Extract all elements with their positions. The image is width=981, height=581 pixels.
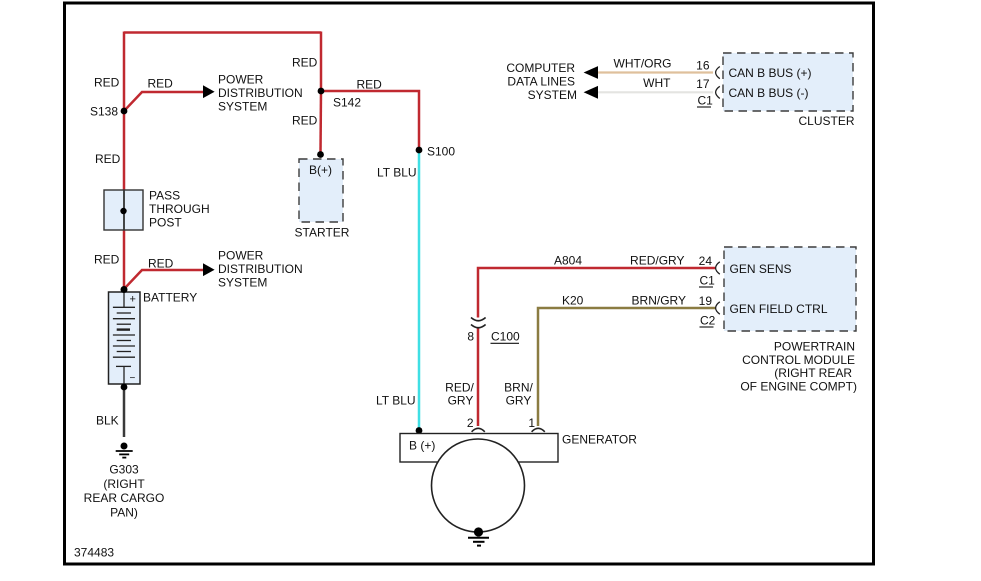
svg-text:C1: C1	[698, 94, 714, 108]
svg-text:RED: RED	[94, 253, 120, 267]
battery internals	[113, 292, 135, 384]
svg-text:RED: RED	[95, 152, 121, 166]
svg-text:DISTRIBUTION: DISTRIBUTION	[218, 262, 303, 276]
svg-text:RED: RED	[94, 76, 120, 90]
wire: WHT cluster to computer data lines	[598, 91, 713, 93]
wire: RED/GRY A804 from PCM left then down to C100	[478, 268, 716, 318]
svg-text:GRY: GRY	[448, 394, 474, 408]
svg-text:RED/GRY: RED/GRY	[630, 254, 684, 268]
svg-text:S142: S142	[333, 96, 361, 110]
svg-text:19: 19	[699, 294, 713, 308]
svg-text:CAN B BUS (-): CAN B BUS (-)	[729, 86, 809, 100]
svg-text:DISTRIBUTION: DISTRIBUTION	[218, 86, 303, 100]
svg-text:BLK: BLK	[96, 414, 119, 428]
wire: black conductor inside pass-through post	[123, 190, 125, 230]
svg-text:REAR CARGO: REAR CARGO	[84, 491, 165, 505]
svg-text:B (+): B (+)	[409, 439, 435, 453]
svg-text:BRN/: BRN/	[504, 381, 533, 395]
svg-text:C1: C1	[700, 274, 716, 288]
wire: LT BLU S100 down to generator B(+)	[418, 150, 421, 430]
svg-text:GEN SENS: GEN SENS	[730, 262, 792, 276]
node: S100 junction dot	[416, 147, 423, 154]
svg-text:CAN B BUS (+): CAN B BUS (+)	[729, 66, 812, 80]
svg-text:POST: POST	[149, 216, 182, 230]
svg-text:RED: RED	[357, 78, 383, 92]
frame border	[65, 3, 874, 564]
wire: RED vertical top corner down to S142	[320, 32, 323, 92]
node: S142 junction dot	[318, 88, 325, 95]
svg-text:G303: G303	[109, 463, 139, 477]
connector: C100 inline connector	[471, 318, 486, 328]
svg-text:THROUGH: THROUGH	[149, 202, 210, 216]
wire: RED S142 right and down to S100	[321, 91, 419, 150]
svg-text:GENERATOR: GENERATOR	[562, 433, 637, 447]
box: generator	[400, 434, 558, 463]
svg-text:LT BLU: LT BLU	[376, 394, 416, 408]
svg-text:(RIGHT: (RIGHT	[103, 477, 145, 491]
wire: BLK battery to ground G303	[123, 387, 126, 437]
node: S138 junction dot	[121, 108, 128, 115]
svg-text:(RIGHT REAR: (RIGHT REAR	[774, 366, 852, 380]
connector: cluster pin 17	[716, 86, 720, 98]
svg-text:POWERTRAIN: POWERTRAIN	[774, 340, 855, 354]
svg-text:374483: 374483	[74, 546, 114, 560]
svg-text:RED: RED	[148, 257, 174, 271]
connector: PCM pin 24	[716, 262, 720, 274]
svg-text:K20: K20	[562, 294, 584, 308]
svg-text:16: 16	[696, 59, 710, 73]
svg-text:A804: A804	[554, 254, 582, 268]
node: LT BLU at generator dot	[416, 427, 423, 434]
svg-text:SYSTEM: SYSTEM	[218, 100, 267, 114]
svg-text:POWER: POWER	[218, 73, 264, 87]
svg-text:LT BLU: LT BLU	[377, 166, 417, 180]
svg-text:17: 17	[696, 77, 710, 91]
node: pass-through post terminal dot	[120, 208, 126, 214]
svg-text:RED/: RED/	[445, 381, 474, 395]
arrow: power distribution (top)	[203, 85, 215, 98]
node: battery negative terminal dot	[121, 384, 128, 391]
svg-text:C2: C2	[700, 314, 716, 328]
box: cluster (dashed)	[723, 53, 853, 111]
ground: G303	[116, 443, 133, 458]
svg-text:S138: S138	[90, 105, 118, 119]
svg-text:BRN/GRY: BRN/GRY	[632, 294, 686, 308]
svg-text:PAN): PAN)	[110, 505, 138, 519]
wire: BRN/GRY K20 from PCM left then down to generator pin 1	[538, 308, 716, 426]
svg-text:GEN FIELD CTRL: GEN FIELD CTRL	[730, 302, 828, 316]
svg-text:WHT: WHT	[643, 76, 671, 90]
ground: generator case ground	[468, 527, 489, 545]
connector: generator pin 1	[532, 428, 545, 432]
arrow: computer data lines (bottom)	[584, 86, 598, 99]
connector: cluster pin 16	[716, 67, 720, 79]
svg-text:DATA LINES: DATA LINES	[507, 75, 575, 89]
svg-text:OF ENGINE COMPT): OF ENGINE COMPT)	[740, 379, 857, 393]
svg-text:COMPUTER: COMPUTER	[506, 61, 575, 75]
box: powertrain control module (dashed)	[724, 247, 856, 331]
svg-text:2: 2	[467, 416, 474, 430]
wire: RED pass-through post to battery junction	[123, 230, 126, 290]
svg-text:SYSTEM: SYSTEM	[218, 276, 267, 290]
svg-text:C100: C100	[491, 330, 520, 344]
svg-text:−: −	[130, 373, 136, 384]
svg-text:PASS: PASS	[149, 189, 180, 203]
svg-text:+: +	[130, 294, 136, 306]
svg-text:CLUSTER: CLUSTER	[798, 114, 854, 128]
svg-text:24: 24	[699, 254, 713, 268]
wire: RED branch S138 to power distribution arrow	[124, 92, 205, 111]
wire: RED S138 down to pass-through post	[123, 111, 126, 190]
svg-text:B(+): B(+)	[309, 163, 332, 177]
svg-text:CONTROL MODULE: CONTROL MODULE	[742, 353, 855, 367]
svg-text:1: 1	[528, 416, 535, 430]
svg-text:POWER: POWER	[218, 249, 264, 263]
node: starter B(+) terminal dot	[317, 151, 324, 158]
arrow: computer data lines (top)	[584, 66, 598, 79]
wire: RED S142 down to starter B(+)	[319, 91, 322, 153]
wire: RED left vertical top to S138	[123, 32, 126, 112]
connector: generator pin 2	[472, 428, 485, 432]
box: pass through post	[104, 190, 143, 230]
svg-text:S100: S100	[427, 145, 455, 159]
wire: WHT/ORG cluster to computer data lines	[598, 71, 713, 73]
box: starter (dashed)	[299, 159, 343, 222]
svg-text:BATTERY: BATTERY	[143, 291, 197, 305]
arrow: power distribution (lower)	[203, 263, 215, 276]
wire: RED/GRY A804 from C100 down to generator pin 2	[477, 329, 480, 427]
svg-text:WHT/ORG: WHT/ORG	[614, 57, 672, 71]
svg-text:RED: RED	[292, 56, 318, 70]
connector: PCM pin 19	[716, 302, 720, 314]
wire: top RED horizontal S138 to S142	[124, 31, 321, 34]
generator circle	[432, 439, 525, 532]
box: battery	[109, 292, 141, 384]
svg-text:RED: RED	[292, 114, 318, 128]
svg-text:STARTER: STARTER	[295, 226, 350, 240]
svg-text:SYSTEM: SYSTEM	[528, 88, 577, 102]
node: battery positive junction dot	[121, 286, 128, 293]
svg-text:GRY: GRY	[506, 394, 532, 408]
svg-text:8: 8	[467, 330, 474, 344]
wire: RED branch battery to power distribution arrow	[124, 270, 205, 289]
svg-text:RED: RED	[148, 77, 174, 91]
